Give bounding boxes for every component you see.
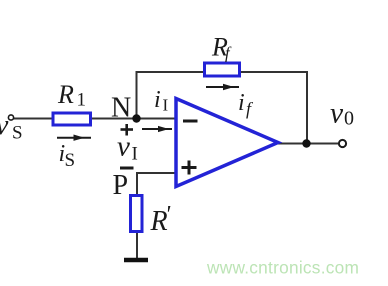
- svg-text:S: S: [65, 150, 76, 171]
- svg-text:1: 1: [77, 90, 87, 111]
- svg-text:S: S: [12, 123, 23, 144]
- svg-text:0: 0: [344, 108, 354, 130]
- svg-text:R: R: [57, 80, 74, 109]
- svg-text:i: i: [154, 87, 161, 113]
- svg-text:www.cntronics.com: www.cntronics.com: [206, 258, 359, 278]
- svg-text:': ': [165, 202, 171, 228]
- svg-text:P: P: [113, 170, 129, 201]
- svg-text:f: f: [246, 99, 254, 119]
- svg-text:v: v: [117, 131, 130, 163]
- svg-text:N: N: [111, 93, 131, 124]
- svg-text:I: I: [163, 96, 169, 115]
- svg-text:f: f: [225, 44, 232, 63]
- svg-text:i: i: [238, 90, 245, 116]
- svg-text:v: v: [330, 98, 344, 130]
- svg-text:v: v: [0, 109, 9, 141]
- svg-text:I: I: [132, 144, 138, 165]
